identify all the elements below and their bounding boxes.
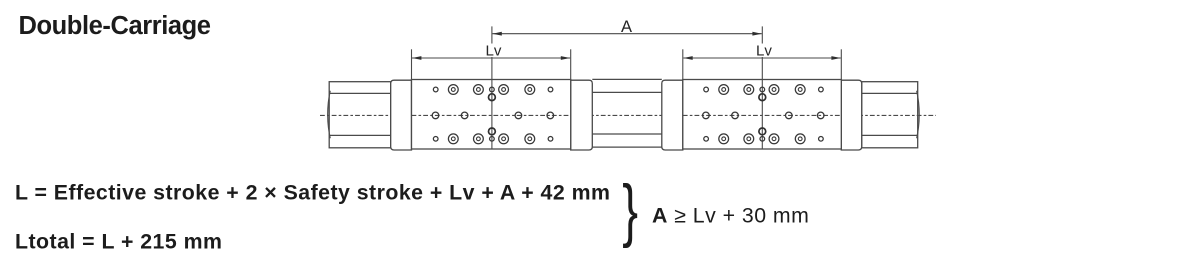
svg-text:A ≥ Lv + 30 mm: A ≥ Lv + 30 mm — [652, 204, 809, 228]
svg-text:Lv: Lv — [756, 43, 772, 60]
dimension Lv left line — [412, 56, 570, 60]
left carriage holes row3 — [433, 134, 553, 144]
svg-text:Lv: Lv — [486, 43, 502, 60]
svg-text:Double-Carriage: Double-Carriage — [19, 12, 211, 40]
right carriage left end block — [662, 80, 683, 150]
right end housing — [862, 82, 918, 148]
left carriage holes row1 — [433, 85, 553, 95]
right carriage right end block — [841, 80, 861, 150]
dimension Lv right label — [754, 44, 775, 58]
right carriage plate — [683, 80, 842, 150]
middle rail section — [592, 79, 662, 147]
dimension A line — [492, 32, 761, 36]
right carriage holes row1 — [704, 85, 824, 95]
dimension Lv left: extension lines — [412, 49, 571, 79]
right carriage center bolt holes — [759, 94, 766, 135]
left carriage left end block — [391, 80, 412, 150]
left carriage center bolt holes — [489, 94, 496, 135]
left carriage holes row2 — [432, 112, 553, 119]
svg-text:Ltotal = L + 215 mm: Ltotal = L + 215 mm — [15, 229, 222, 253]
left carriage center mark line — [491, 26, 493, 149]
svg-text:L = Effective stroke + 2 × Saf: L = Effective stroke + 2 × Safety stroke… — [15, 181, 610, 205]
right carriage holes row2 — [703, 112, 824, 119]
dimension Lv right line — [683, 56, 841, 60]
right carriage center mark line — [761, 26, 763, 149]
svg-text:A: A — [621, 18, 632, 36]
centerline (dash-dot axis) — [320, 114, 936, 116]
svg-text:}: } — [622, 170, 638, 248]
left shaft dome arc — [328, 91, 331, 138]
right shaft dome arc — [917, 91, 920, 138]
left carriage right end block — [571, 80, 593, 150]
dimension Lv left label — [483, 44, 504, 58]
right carriage holes row3 — [704, 134, 824, 144]
left end housing — [329, 82, 391, 148]
dimension Lv right: extension lines — [683, 49, 842, 79]
left carriage plate — [412, 80, 571, 150]
centerline over carriages — [412, 114, 571, 116]
